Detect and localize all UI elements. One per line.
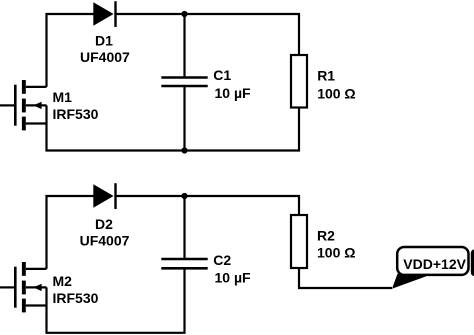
svg-text:100 Ω: 100 Ω — [317, 245, 355, 261]
svg-text:R2: R2 — [317, 227, 335, 243]
svg-text:UF4007: UF4007 — [80, 49, 130, 65]
svg-text:M1: M1 — [53, 89, 73, 105]
partial net flag cut off at right edge — [471, 250, 474, 277]
node junction circuit 2 — [181, 193, 187, 199]
svg-text:D1: D1 — [95, 32, 113, 48]
wire capacitor C1 top lead — [183, 14, 185, 78]
svg-text:M2: M2 — [53, 273, 73, 289]
diode D1 — [93, 1, 115, 27]
svg-text:D2: D2 — [95, 216, 113, 232]
transistor M1 — [0, 80, 47, 130]
svg-text:IRF530: IRF530 — [53, 290, 99, 306]
net flag VDD+12V box — [397, 247, 468, 275]
svg-text:UF4007: UF4007 — [80, 232, 130, 248]
svg-text:VDD+12V: VDD+12V — [403, 256, 466, 272]
wire bottom rail circuit 1 — [47, 105, 300, 150]
capacitor C1 — [161, 78, 207, 87]
capacitor C2 — [161, 259, 207, 268]
svg-text:10 µF: 10 µF — [215, 85, 252, 101]
svg-text:IRF530: IRF530 — [53, 106, 99, 122]
wire R2 bottom to VDD flag — [299, 268, 392, 288]
wire top rail circuit 1 — [47, 14, 300, 87]
net flag VDD+12V tail — [392, 274, 428, 289]
svg-text:C2: C2 — [213, 252, 231, 268]
node junction top — [181, 11, 187, 17]
diode D2 — [93, 183, 115, 209]
wire capacitor C2 bottom lead to ground rail — [47, 268, 185, 333]
wire capacitor C1 bottom lead — [183, 86, 185, 151]
resistor R1 — [291, 55, 307, 108]
wire top rail circuit 2 — [47, 196, 300, 269]
wire capacitor C2 top lead — [183, 196, 185, 259]
svg-text:R1: R1 — [317, 68, 335, 84]
node junction bottom — [181, 147, 187, 153]
svg-text:C1: C1 — [213, 67, 231, 83]
svg-text:10 µF: 10 µF — [215, 269, 252, 285]
transistor M2 — [0, 262, 47, 312]
resistor R2 — [291, 215, 307, 268]
svg-text:100 Ω: 100 Ω — [317, 86, 355, 102]
